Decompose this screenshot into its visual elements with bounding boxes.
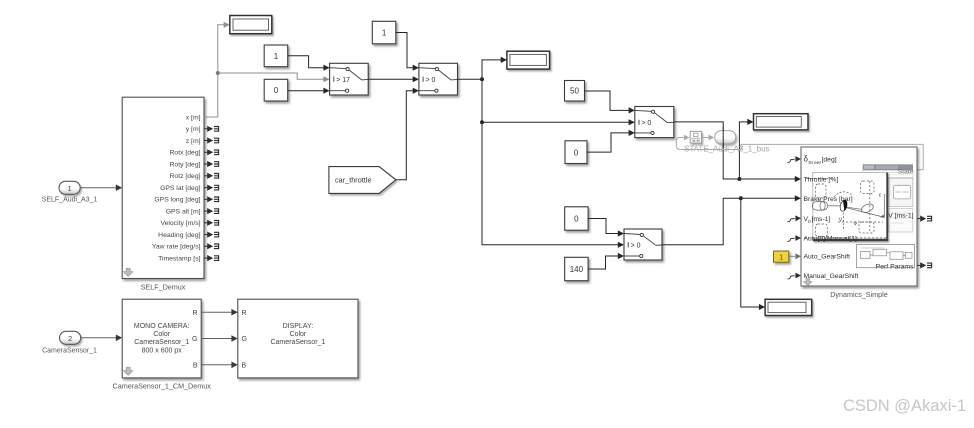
wire Switch3 to Throttle input and Display3 — [674, 119, 801, 182]
svg-text:> 0: > 0 — [426, 77, 436, 84]
svg-text:Heading [deg]: Heading [deg] — [158, 232, 200, 239]
wire port1 to SELF_Demux — [80, 184, 122, 191]
svg-text:x [m]: x [m] — [186, 114, 201, 121]
switch Switch3 |>0 — [635, 107, 674, 138]
svg-text:50: 50 — [570, 87, 579, 96]
wire car_throttle to Switch2 bottom — [396, 88, 419, 180]
svg-text:800 x 600 px: 800 x 600 px — [142, 347, 183, 354]
display block Display1 — [230, 16, 272, 34]
subsystem SELF_Demux — [122, 97, 204, 291]
constant 50 — [565, 81, 585, 102]
wire 140 to Switch4 bottom — [588, 253, 624, 269]
svg-text:Rotz [deg]: Rotz [deg] — [170, 173, 201, 180]
svg-text:[ms-1]: [ms-1] — [812, 216, 831, 223]
svg-text:140: 140 — [570, 265, 584, 274]
svg-text:2: 2 — [68, 334, 72, 343]
svg-text:Throttle [%]: Throttle [%] — [804, 177, 839, 184]
Dynamics_Simple thumbnail white card with drivetrain sketch — [806, 172, 888, 240]
svg-text:[deg]: [deg] — [822, 157, 837, 164]
wire 0 lower to Switch4 top — [588, 219, 624, 237]
svg-text:R: R — [192, 310, 197, 317]
wire Switch2 output net (to Display2, Switch3, Switch4) — [458, 57, 635, 248]
svg-text:z [m]: z [m] — [186, 138, 201, 145]
commented wire State to STATE_Audi_A3_1_bus (gray) — [676, 135, 923, 170]
svg-text:V [ms-1]: V [ms-1] — [888, 213, 913, 220]
Dynamics_Simple thumbnail fragments (right column) — [863, 164, 913, 232]
commented To-File block STATE_Audi_A3_1_bus (gray) — [690, 131, 714, 143]
svg-text:V: V — [839, 217, 843, 223]
dashed strike over Auto[0]/Manual[1] label — [804, 237, 886, 239]
svg-text:MONO CAMERA:: MONO CAMERA: — [134, 323, 190, 330]
svg-text:0: 0 — [574, 148, 579, 157]
display block Display4 — [765, 299, 812, 315]
input port 2 CameraSensor_1 — [42, 331, 97, 354]
svg-text:Timestamp [s]: Timestamp [s] — [158, 255, 201, 262]
subsystem Dynamics_Simple frame — [801, 147, 917, 299]
switch Switch1 |>17 — [330, 63, 369, 95]
svg-text:Velocity [m/s]: Velocity [m/s] — [160, 220, 200, 227]
constant 0 (upper) — [264, 79, 288, 101]
svg-text:Yaw rate [deg/s]: Yaw rate [deg/s] — [152, 244, 201, 251]
svg-text:0: 0 — [274, 86, 279, 95]
svg-text:B: B — [242, 362, 247, 369]
wire Switch4 to Brake input and Display4 — [662, 195, 801, 310]
constant 1 (upper) — [264, 45, 288, 67]
wire 50 to Switch3 top — [585, 91, 635, 114]
switch Switch2 |>0 — [419, 63, 458, 95]
input port 1 SELF_Audi_A3_1 — [42, 181, 98, 203]
svg-text:1: 1 — [68, 184, 72, 193]
wire Switch3 branch crossing outport — [722, 127, 724, 148]
terminator on V [ms-1] output — [917, 216, 932, 222]
svg-text:G: G — [242, 336, 247, 343]
Dynamics_Simple port labels — [804, 155, 915, 280]
terminator ports on SELF_Demux outputs — [204, 126, 219, 262]
svg-text:CSDN @Akaxi-1: CSDN @Akaxi-1 — [843, 397, 966, 415]
svg-text:CameraSensor_1: CameraSensor_1 — [42, 347, 97, 354]
wire 0 to Switch3 bottom — [587, 130, 635, 152]
svg-text:Roty [deg]: Roty [deg] — [170, 161, 201, 168]
goto tag car_throttle — [329, 167, 396, 194]
constant 0 (lower) — [565, 207, 588, 230]
svg-text:Auto_GearShift: Auto_GearShift — [804, 253, 851, 260]
wire port2 to camera demux — [81, 335, 123, 342]
svg-text:CameraSensor_1_CM_Demux: CameraSensor_1_CM_Demux — [113, 381, 212, 390]
svg-text:CameraSensor_1: CameraSensor_1 — [134, 339, 189, 346]
svg-text:1: 1 — [382, 29, 387, 38]
svg-text:> 0: > 0 — [631, 243, 641, 250]
svg-text:> 17: > 17 — [336, 77, 350, 84]
svg-text:R: R — [242, 310, 247, 317]
constant 1 (second) — [372, 21, 396, 44]
terminator on Perf Params output — [917, 262, 932, 268]
display block Display2 — [507, 51, 550, 69]
svg-text:0: 0 — [574, 215, 579, 224]
svg-text:STATE_Audi_A3_1_bus: STATE_Audi_A3_1_bus — [684, 145, 770, 154]
svg-text:Perf Params: Perf Params — [876, 263, 914, 270]
wire x[m] signal to Display1 and Switch1 (gray) — [204, 22, 330, 117]
svg-text:1: 1 — [779, 253, 783, 262]
wires R G B to display subsystem — [201, 309, 238, 368]
svg-text:CameraSensor_1: CameraSensor_1 — [270, 339, 325, 346]
svg-text:Rotx [deg]: Rotx [deg] — [170, 150, 201, 157]
svg-text:State: State — [898, 168, 914, 175]
wire constant0 to Switch1 bottom — [288, 88, 330, 94]
constant 140 — [565, 257, 588, 280]
svg-text:Color: Color — [290, 331, 307, 338]
Dynamics_Simple bottom-right mini model panel — [857, 245, 915, 268]
svg-text:Manual_GearShift: Manual_GearShift — [804, 273, 859, 280]
svg-text:St eer: St eer — [808, 160, 821, 166]
svg-text:Color: Color — [153, 331, 170, 338]
svg-text:Auto[0]/Manual[1]: Auto[0]/Manual[1] — [804, 235, 857, 242]
svg-text:Dynamics_Simple: Dynamics_Simple — [830, 290, 888, 299]
svg-text:y [m]: y [m] — [186, 126, 201, 133]
constant 0 (middle) — [565, 141, 587, 164]
svg-text:SELF_Audi_A3_1: SELF_Audi_A3_1 — [42, 197, 98, 204]
svg-text:car_throttle: car_throttle — [335, 175, 372, 184]
svg-text:SELF_Demux: SELF_Demux — [141, 283, 186, 292]
commented outport ellipse (gray) — [715, 131, 736, 144]
constant 1 highlighted yellow — [774, 251, 789, 262]
svg-text:> 0: > 0 — [641, 120, 651, 127]
svg-text:B: B — [193, 362, 198, 369]
subsystem DISPLAY Color CameraSensor_1 — [238, 299, 358, 378]
unconnected input stub squiggles — [788, 159, 795, 279]
wire constant1b to Switch2 top — [396, 33, 419, 71]
subsystem CameraSensor_1_CM_Demux — [113, 299, 212, 390]
switch Switch4 |>0 — [624, 229, 662, 260]
svg-text:DISPLAY:: DISPLAY: — [283, 323, 314, 330]
svg-text:GPS lat [deg]: GPS lat [deg] — [160, 185, 201, 192]
wire constant1 to Switch1 top — [288, 56, 330, 71]
svg-text:1: 1 — [274, 52, 279, 61]
Dynamics_Simple input port arrows — [795, 156, 801, 278]
svg-text:GPS long [deg]: GPS long [deg] — [154, 197, 200, 204]
wire yellow constant to Auto_GearShift — [789, 253, 801, 259]
svg-text:Brake Pres [bar]: Brake Pres [bar] — [804, 196, 853, 203]
wire Switch1 to Switch2 — [368, 76, 419, 82]
svg-text:G: G — [192, 336, 197, 343]
svg-text:GPS alt [m]: GPS alt [m] — [166, 208, 201, 215]
display block Display3 — [754, 114, 809, 130]
